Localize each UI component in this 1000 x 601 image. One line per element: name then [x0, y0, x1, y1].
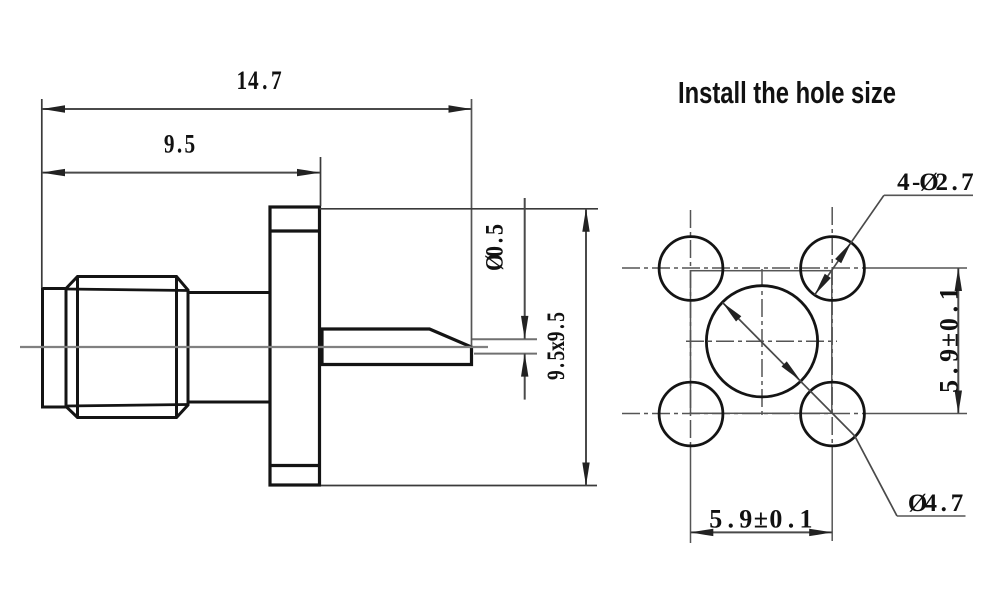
dimension line 9.5x9.5 vertical	[585, 209, 587, 486]
centerline col2	[831, 207, 833, 446]
dimension line 9.5	[42, 172, 320, 174]
dimension line 14.7	[42, 108, 472, 110]
barrel bottom edge	[188, 401, 270, 404]
center hole large	[706, 286, 817, 397]
mounting hole top-left	[659, 237, 723, 301]
pin tip extension line upper	[472, 338, 537, 340]
extension line flange bottom	[321, 485, 597, 487]
hex nut crossing line bottom	[66, 405, 188, 407]
centerline col1	[690, 210, 692, 446]
extension line flange top	[320, 208, 599, 210]
centerline row2	[622, 413, 862, 415]
extension line 9.5 at flange back	[320, 157, 322, 206]
barrel top edge	[188, 291, 270, 294]
dimension line O0.5 upper segment	[524, 198, 526, 400]
extension line left face	[41, 99, 43, 288]
label 4-O2.7 underline	[884, 194, 973, 196]
center pin	[322, 329, 472, 365]
leader 4-O2.7	[815, 195, 884, 294]
flange inner line bottom	[270, 464, 320, 467]
pin tip extension line lower	[474, 353, 537, 355]
hex nut inner flat line right	[175, 277, 178, 418]
hex nut outline	[66, 277, 188, 418]
leader O4.7 diagonal	[723, 303, 898, 517]
centerline of connector axis	[20, 346, 488, 348]
extension line pin tip vertical	[471, 99, 473, 347]
centerline row1	[622, 267, 862, 269]
centerline large circle vertical	[761, 269, 763, 419]
svg-text:9.5: 9.5	[164, 131, 195, 159]
centerline large circle horizontal	[686, 340, 837, 342]
svg-text:Ø0.5: Ø0.5	[481, 224, 509, 271]
dimension 5.9 bottom	[690, 531, 832, 533]
mounting hole bottom-right	[801, 382, 865, 446]
hex nut inner flat line left	[76, 277, 79, 418]
svg-text:Ø4.7: Ø4.7	[908, 490, 963, 517]
hex nut crossing line top	[66, 289, 188, 291]
mounting hole top-right	[801, 237, 865, 301]
svg-text:Install the hole size: Install the hole size	[678, 75, 896, 110]
flange inner line top	[270, 229, 320, 232]
connector left coupling cylinder	[43, 289, 67, 408]
svg-text:4-Ø2.7: 4-Ø2.7	[897, 169, 974, 196]
mounting hole bottom-left	[659, 382, 723, 446]
flange body	[270, 207, 320, 485]
dimension 5.9 right	[957, 268, 959, 414]
hole pattern square	[691, 271, 832, 414]
label O4.7 underline	[897, 515, 966, 517]
